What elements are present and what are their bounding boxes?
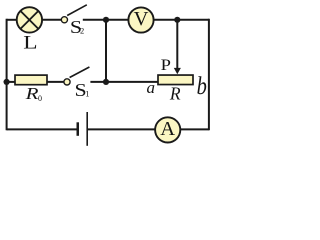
svg-text:R: R bbox=[169, 84, 181, 104]
svg-text:0: 0 bbox=[38, 94, 42, 103]
svg-text:a: a bbox=[147, 78, 156, 97]
svg-text:1: 1 bbox=[85, 89, 89, 99]
svg-text:b: b bbox=[197, 72, 207, 99]
svg-text:L: L bbox=[23, 33, 37, 54]
svg-text:R: R bbox=[24, 84, 38, 103]
svg-text:P: P bbox=[161, 57, 171, 74]
svg-text:2: 2 bbox=[80, 25, 84, 35]
svg-text:V: V bbox=[134, 8, 149, 30]
svg-text:A: A bbox=[160, 118, 175, 140]
